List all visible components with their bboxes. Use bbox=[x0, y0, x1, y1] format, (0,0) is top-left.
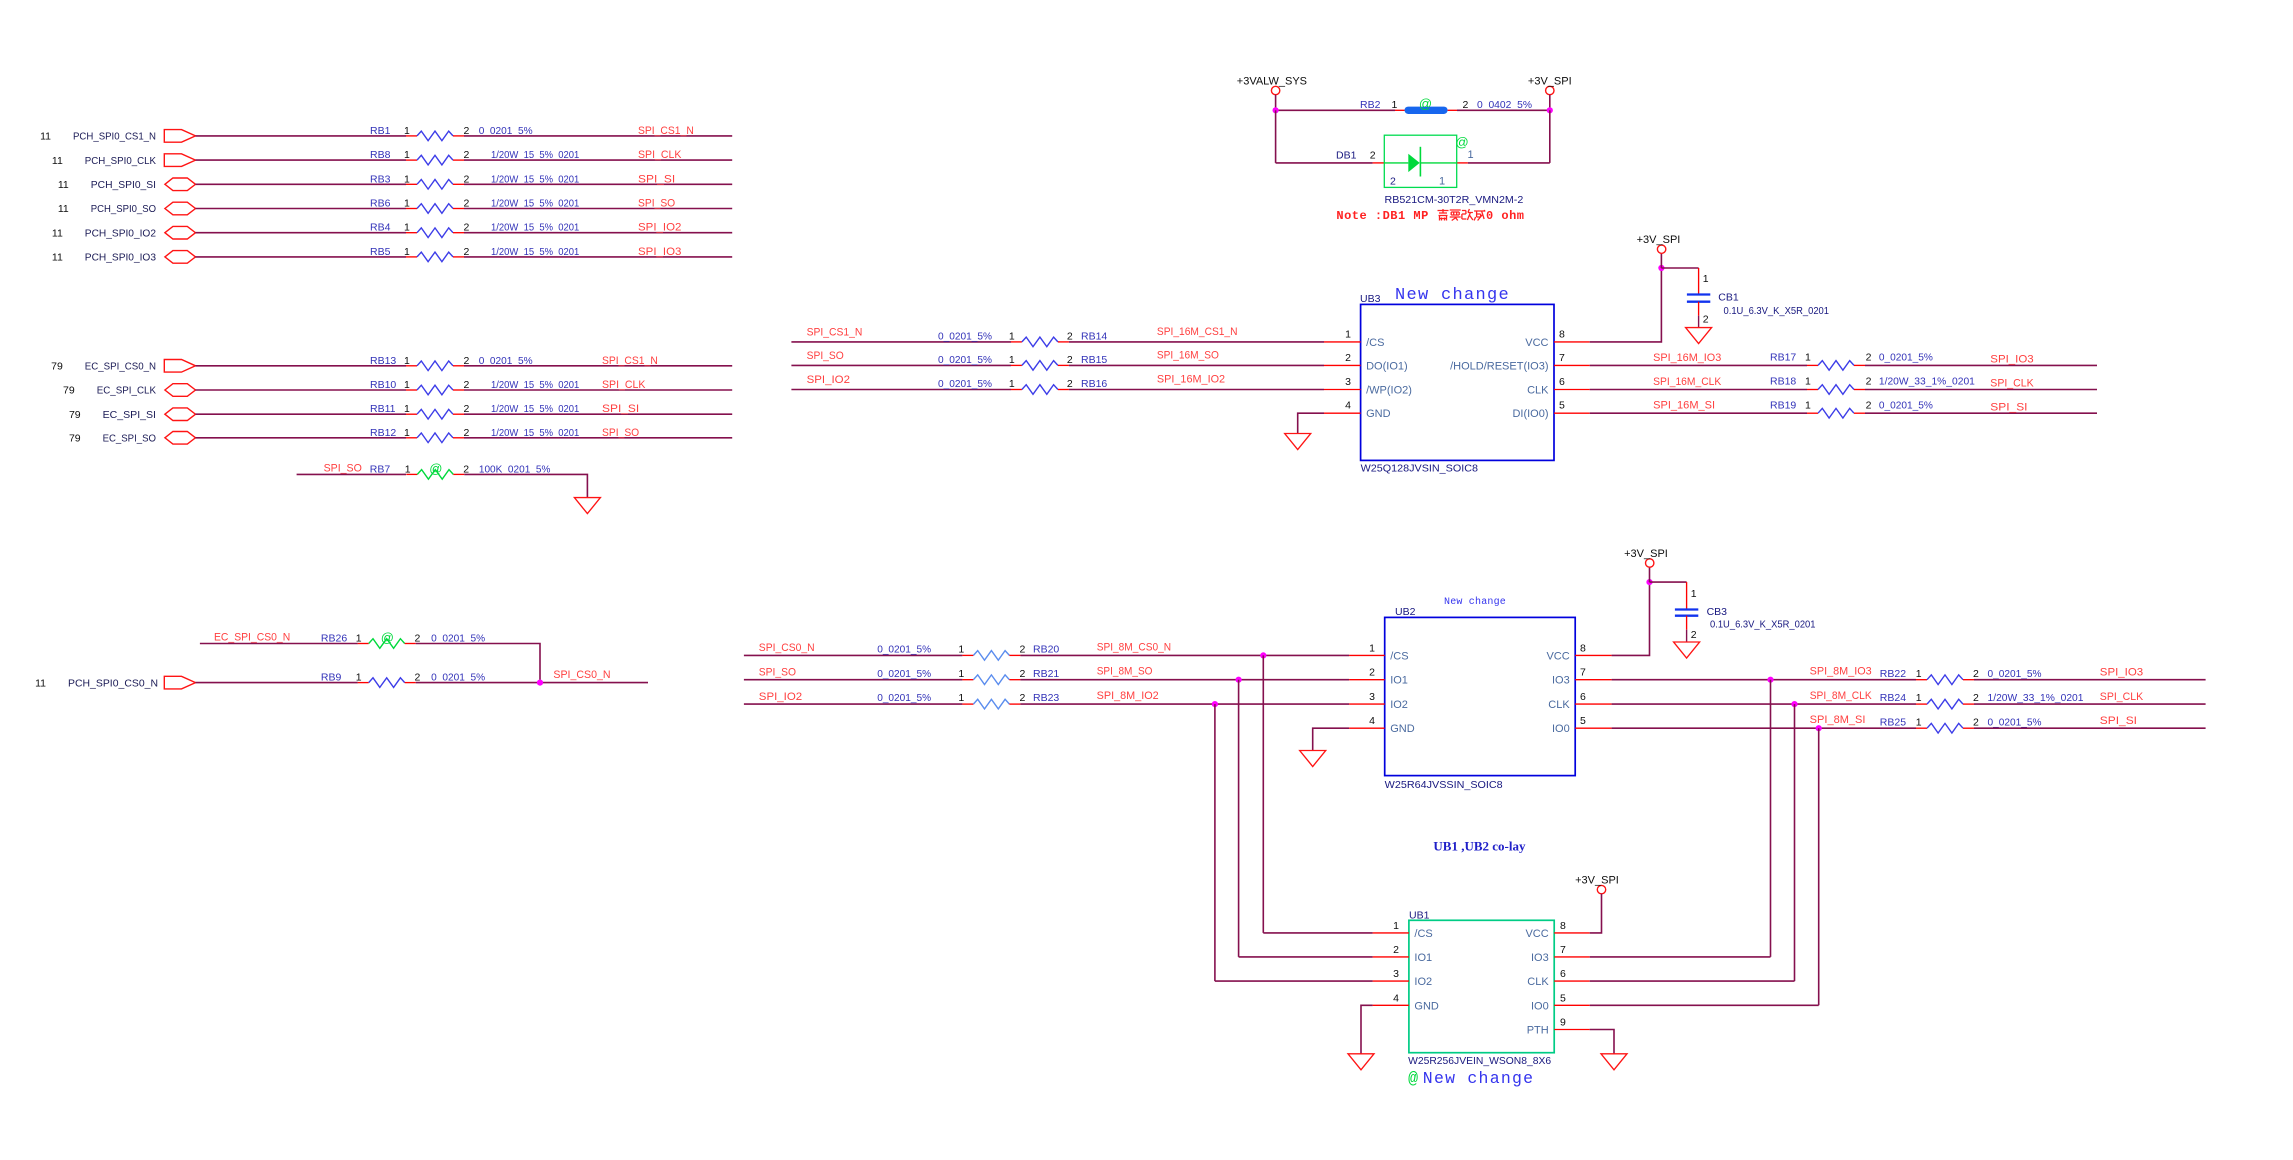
svg-text:DB1: DB1 bbox=[1336, 150, 1357, 162]
svg-text:1: 1 bbox=[1916, 692, 1922, 704]
pin 6 UB3 CLK bbox=[1554, 389, 1590, 391]
pin 4 UB2 GND bbox=[1349, 727, 1385, 729]
pin 4 UB1 GND bbox=[1373, 1004, 1409, 1006]
svg-text:5: 5 bbox=[1560, 992, 1566, 1004]
svg-text:@: @ bbox=[381, 630, 394, 645]
svg-text:1: 1 bbox=[1805, 352, 1811, 364]
wire +3V_SPI stem bbox=[1549, 95, 1551, 111]
svg-text:GND: GND bbox=[1414, 1000, 1439, 1012]
wire UB1 pin2 from SPI_8M_SO bbox=[1239, 956, 1373, 958]
wire SPI_8M_SO vertical to UB1 bbox=[1238, 680, 1240, 957]
svg-text:SPI_CS0_N: SPI_CS0_N bbox=[759, 642, 815, 654]
svg-text:RB17: RB17 bbox=[1770, 352, 1796, 364]
wire RB26 to node SPI_CS0_N bbox=[416, 644, 540, 683]
svg-text:7: 7 bbox=[1559, 352, 1565, 364]
wire RB18 to net SPI_CLK bbox=[1865, 389, 2097, 391]
junction SPI_8M_IO3 bbox=[1767, 677, 1773, 683]
power symbol +3V_SPI (UB1) bbox=[1575, 874, 1619, 893]
svg-text:4: 4 bbox=[1345, 400, 1351, 412]
svg-text:6: 6 bbox=[1559, 376, 1565, 388]
svg-text:1: 1 bbox=[958, 692, 964, 704]
pin 1 UB2 /CS bbox=[1349, 654, 1385, 656]
resistor RB13 bbox=[406, 361, 464, 371]
wire SPI_CS1_N to RB14 bbox=[791, 341, 1011, 343]
junction SPI_8M_CLK bbox=[1791, 701, 1797, 707]
svg-text:2: 2 bbox=[1691, 629, 1697, 641]
svg-text:1: 1 bbox=[404, 379, 410, 391]
svg-text:RB6: RB6 bbox=[370, 198, 391, 210]
wire RB19 to net SPI_SI bbox=[1865, 412, 2097, 414]
port symbol PCH_SPI0_SO bbox=[165, 202, 196, 215]
wire UB2 pin 5 to RB25 bbox=[1612, 727, 1916, 729]
svg-text:RB11: RB11 bbox=[370, 403, 396, 415]
pin 2 UB2 IO1 bbox=[1349, 679, 1385, 681]
svg-text:/CS: /CS bbox=[1390, 650, 1408, 662]
svg-text:RB12: RB12 bbox=[370, 427, 396, 439]
wire to DB1 pin 2 bbox=[1276, 162, 1373, 164]
svg-text:0.1U_6.3V_K_X5R_0201: 0.1U_6.3V_K_X5R_0201 bbox=[1724, 305, 1830, 317]
wire EC_SPI_CS0_N to RB26 bbox=[200, 643, 358, 645]
svg-text:0_0201_5%: 0_0201_5% bbox=[1988, 716, 2042, 728]
wire UB1 PTH to ground bbox=[1590, 1030, 1614, 1054]
resistor RB22 bbox=[1916, 675, 1974, 685]
svg-text:0_0201_5%: 0_0201_5% bbox=[938, 330, 992, 342]
capacitor CB1 bbox=[1687, 268, 1710, 328]
svg-text:/HOLD/RESET(IO3): /HOLD/RESET(IO3) bbox=[1450, 360, 1548, 372]
svg-text:IO2: IO2 bbox=[1414, 976, 1432, 988]
wire down to DB1 cathode side bbox=[1549, 110, 1551, 163]
svg-text:1/20W_33_1%_0201: 1/20W_33_1%_0201 bbox=[1988, 692, 2084, 704]
pin 1 UB1 /CS bbox=[1373, 932, 1409, 934]
svg-text:SPI_16M_IO2: SPI_16M_IO2 bbox=[1157, 374, 1225, 386]
junction SPI_8M_SO bbox=[1236, 677, 1242, 683]
svg-text:0_0201_5%: 0_0201_5% bbox=[1879, 399, 1933, 411]
svg-text:2: 2 bbox=[1973, 716, 1979, 728]
svg-text:RB1: RB1 bbox=[370, 125, 391, 137]
wire EC_SPI_SO to RB12 bbox=[196, 437, 407, 439]
note text DB1 bbox=[1336, 209, 1524, 223]
svg-text:2: 2 bbox=[1390, 175, 1396, 187]
svg-text:1: 1 bbox=[404, 427, 410, 439]
resistor RB9 bbox=[358, 678, 416, 688]
junction SPI_8M_SI bbox=[1816, 725, 1822, 731]
svg-text:0.1U_6.3V_K_X5R_0201: 0.1U_6.3V_K_X5R_0201 bbox=[1710, 618, 1816, 630]
port symbol PCH_SPI0_IO3 bbox=[165, 251, 196, 264]
svg-text:RB16: RB16 bbox=[1081, 378, 1107, 390]
svg-text:IO0: IO0 bbox=[1531, 1000, 1549, 1012]
svg-text:PCH_SPI0_CS1_N: PCH_SPI0_CS1_N bbox=[73, 131, 156, 143]
svg-text:VCC: VCC bbox=[1525, 337, 1548, 349]
svg-text:+3VALW_SYS: +3VALW_SYS bbox=[1237, 75, 1307, 87]
svg-text:SPI_IO3: SPI_IO3 bbox=[2100, 667, 2144, 679]
svg-text:1: 1 bbox=[1691, 588, 1697, 600]
svg-text:1: 1 bbox=[958, 644, 964, 656]
wire SPI_SO to RB15 bbox=[791, 364, 1011, 366]
svg-text:1: 1 bbox=[404, 222, 410, 234]
svg-text:W25Q128JVSIN_SOIC8: W25Q128JVSIN_SOIC8 bbox=[1361, 462, 1479, 474]
svg-text:1: 1 bbox=[404, 125, 410, 137]
svg-text:RB3: RB3 bbox=[370, 173, 391, 185]
svg-text:RB20: RB20 bbox=[1033, 644, 1059, 656]
svg-text:2: 2 bbox=[1020, 644, 1026, 656]
wire UB2 pin 6 to RB24 bbox=[1612, 703, 1916, 705]
svg-text:PCH_SPI0_CLK: PCH_SPI0_CLK bbox=[85, 155, 156, 167]
port symbol EC_SPI_SI bbox=[165, 408, 196, 421]
wire RB8 to net SPI_CLK bbox=[464, 159, 732, 161]
svg-text:IO3: IO3 bbox=[1552, 675, 1570, 687]
svg-text:2: 2 bbox=[1703, 313, 1709, 325]
svg-text:@: @ bbox=[1419, 96, 1432, 111]
wire UB1 pin1 from SPI_8M_CS0_N bbox=[1263, 932, 1372, 934]
wire UB3 pin 5 to RB19 bbox=[1590, 412, 1807, 414]
wire UB2 GND bbox=[1313, 728, 1349, 750]
wire PCH_SPI0_CS1_N to RB1 bbox=[196, 135, 407, 137]
port symbol PCH_SPI0_CS0_N bbox=[164, 676, 195, 689]
ground CB1 bbox=[1686, 328, 1712, 344]
svg-text:1: 1 bbox=[404, 173, 410, 185]
svg-text:SPI_IO3: SPI_IO3 bbox=[638, 246, 682, 258]
resistor RB5 bbox=[406, 252, 464, 262]
wire RB23 to UB2 pin 3 bbox=[1020, 703, 1349, 705]
svg-text:SPI_CLK: SPI_CLK bbox=[602, 379, 645, 391]
svg-text:1: 1 bbox=[1392, 99, 1398, 111]
svg-text:1: 1 bbox=[356, 672, 362, 684]
svg-text:SPI_16M_IO3: SPI_16M_IO3 bbox=[1653, 352, 1721, 364]
wire PCH_SPI0_CLK to RB8 bbox=[196, 159, 407, 161]
svg-text:2: 2 bbox=[1370, 150, 1376, 162]
wire UB2 VCC to +3V_SPI bbox=[1612, 582, 1650, 655]
svg-text:CB1: CB1 bbox=[1718, 292, 1739, 304]
svg-text:11: 11 bbox=[52, 252, 63, 264]
svg-text:RB15: RB15 bbox=[1081, 354, 1107, 366]
svg-text:0 ohm: 0 ohm bbox=[1486, 209, 1525, 223]
svg-text:2: 2 bbox=[1067, 354, 1073, 366]
pin 8 UB2 VCC bbox=[1575, 654, 1611, 656]
pin 3 UB3 /WP(IO2) bbox=[1324, 389, 1361, 391]
resistor RB7 bbox=[406, 461, 464, 479]
svg-text:1: 1 bbox=[356, 633, 362, 645]
svg-text:1: 1 bbox=[1439, 175, 1445, 187]
svg-text:SPI_CLK: SPI_CLK bbox=[2100, 691, 2143, 703]
svg-text:RB5: RB5 bbox=[370, 246, 391, 258]
svg-text:SPI_8M_IO3: SPI_8M_IO3 bbox=[1810, 666, 1872, 678]
pin 3 UB1 IO2 bbox=[1373, 980, 1409, 982]
wire PCH_SPI0_IO3 to RB5 bbox=[196, 256, 407, 258]
svg-text:SPI_8M_CLK: SPI_8M_CLK bbox=[1810, 690, 1872, 702]
wire RB17 to net SPI_IO3 bbox=[1865, 364, 2097, 366]
svg-text:2: 2 bbox=[1463, 99, 1469, 111]
port symbol PCH_SPI0_SI bbox=[165, 178, 196, 191]
svg-text:2: 2 bbox=[1866, 376, 1872, 388]
junction +3V_SPI UB2 bbox=[1646, 579, 1652, 585]
ground UB3 bbox=[1285, 434, 1311, 450]
svg-text:RB13: RB13 bbox=[370, 355, 396, 367]
port symbol EC_SPI_SO bbox=[165, 432, 196, 445]
svg-text:UB1: UB1 bbox=[1409, 910, 1430, 922]
wire EC_SPI_CS0_N to RB13 bbox=[196, 365, 407, 367]
pin 6 UB1 CLK bbox=[1554, 980, 1590, 982]
svg-text:79: 79 bbox=[69, 409, 81, 421]
wire UB2 pin 7 to RB22 bbox=[1612, 679, 1916, 681]
resistor RB10 bbox=[406, 385, 464, 395]
svg-text:+3V_SPI: +3V_SPI bbox=[1528, 75, 1572, 87]
svg-text:RB9: RB9 bbox=[321, 672, 342, 684]
svg-text:5: 5 bbox=[1559, 400, 1565, 412]
svg-text:SPI_IO2: SPI_IO2 bbox=[807, 374, 851, 386]
svg-text:0_0201_5%: 0_0201_5% bbox=[1988, 668, 2042, 680]
svg-text:SPI_SO: SPI_SO bbox=[602, 427, 639, 439]
svg-text:GND: GND bbox=[1366, 408, 1391, 420]
svg-text:SPI_16M_CS1_N: SPI_16M_CS1_N bbox=[1157, 326, 1238, 338]
svg-text:RB26: RB26 bbox=[321, 633, 347, 645]
svg-text:CLK: CLK bbox=[1548, 699, 1570, 711]
svg-text:1: 1 bbox=[1345, 328, 1351, 340]
svg-text:6: 6 bbox=[1560, 968, 1566, 980]
svg-text:EC_SPI_CS0_N: EC_SPI_CS0_N bbox=[85, 361, 156, 373]
resistor RB6 bbox=[406, 204, 464, 214]
wire PCH_SPI0_IO2 to RB4 bbox=[196, 232, 407, 234]
svg-text:SPI_SI: SPI_SI bbox=[2100, 715, 2137, 727]
resistor RB21 bbox=[962, 675, 1020, 685]
wire SPI_SO to RB21 bbox=[744, 679, 963, 681]
svg-text:6: 6 bbox=[1580, 691, 1586, 703]
svg-text:VCC: VCC bbox=[1525, 928, 1548, 940]
wire SPI_8M_IO3 vertical to UB1 bbox=[1770, 680, 1772, 957]
svg-text:SPI_16M_CLK: SPI_16M_CLK bbox=[1653, 376, 1721, 388]
resistor RB24 bbox=[1916, 699, 1974, 709]
svg-text:0_0201_5%: 0_0201_5% bbox=[938, 378, 992, 390]
svg-text:+3V_SPI: +3V_SPI bbox=[1624, 548, 1668, 560]
svg-text:SPI_8M_SO: SPI_8M_SO bbox=[1097, 666, 1153, 678]
svg-text:7: 7 bbox=[1560, 944, 1566, 956]
svg-text:4: 4 bbox=[1369, 715, 1375, 727]
svg-text:RB24: RB24 bbox=[1880, 692, 1906, 704]
wire RB20 to UB2 pin 1 bbox=[1020, 654, 1349, 656]
wire SPI_8M_CS0_N vertical to UB1 bbox=[1262, 655, 1264, 933]
resistor RB4 bbox=[406, 228, 464, 238]
svg-text:PTH: PTH bbox=[1527, 1025, 1549, 1037]
svg-text:9: 9 bbox=[1560, 1017, 1566, 1029]
svg-text:0_0201_5%: 0_0201_5% bbox=[938, 354, 992, 366]
wire RB12 to net SPI_SO bbox=[464, 437, 732, 439]
wire UB3 GND bbox=[1298, 413, 1324, 433]
wire +3V_SPI to UB1 VCC bbox=[1590, 894, 1602, 933]
ground for RB7 bbox=[574, 498, 600, 514]
svg-text:UB3: UB3 bbox=[1360, 293, 1381, 305]
resistor RB11 bbox=[406, 409, 464, 419]
svg-text:79: 79 bbox=[51, 361, 63, 373]
svg-text:W25R256JVEIN_WSON8_8X6: W25R256JVEIN_WSON8_8X6 bbox=[1408, 1055, 1551, 1067]
pin 7 UB2 IO3 bbox=[1575, 679, 1611, 681]
wire to capacitor CB3 bbox=[1650, 581, 1687, 583]
wire UB1 GND bbox=[1361, 1005, 1373, 1054]
svg-text:SPI_CLK: SPI_CLK bbox=[638, 149, 681, 161]
wire +3V_SPI stem UB3 bbox=[1660, 253, 1662, 268]
wire UB3 VCC to +3V_SPI bbox=[1590, 268, 1662, 342]
svg-text:IO1: IO1 bbox=[1390, 675, 1408, 687]
svg-text:2: 2 bbox=[1345, 352, 1351, 364]
svg-text:SPI_8M_IO2: SPI_8M_IO2 bbox=[1097, 690, 1159, 702]
svg-text:1: 1 bbox=[1468, 149, 1474, 161]
wire node SPI_CS0_N bbox=[416, 682, 648, 684]
svg-text:IO2: IO2 bbox=[1390, 699, 1408, 711]
svg-text:RB19: RB19 bbox=[1770, 399, 1796, 411]
svg-text:RB21: RB21 bbox=[1033, 668, 1059, 680]
op-amp U-chip UB1 (W25R256 SPI flash) bbox=[1409, 920, 1554, 1052]
wire RB5 to net SPI_IO3 bbox=[464, 256, 732, 258]
resistor RB16 bbox=[1011, 385, 1069, 395]
wire RB24 to net SPI_CLK bbox=[1974, 703, 2206, 705]
port symbol PCH_SPI0_IO2 bbox=[165, 226, 196, 239]
svg-text:0_0201_5%: 0_0201_5% bbox=[1879, 352, 1933, 364]
svg-text:SPI_SO: SPI_SO bbox=[759, 667, 796, 679]
wire PCH_SPI0_CS0_N to RB9 bbox=[196, 682, 358, 684]
pin 6 UB2 CLK bbox=[1575, 703, 1611, 705]
pin 5 UB3 DI(IO0) bbox=[1554, 412, 1590, 414]
svg-text:1: 1 bbox=[1916, 668, 1922, 680]
svg-text:EC_SPI_CLK: EC_SPI_CLK bbox=[97, 385, 156, 397]
wire UB1 pin5 to SPI_8M_SI bbox=[1590, 1004, 1819, 1006]
svg-text:SPI_SO: SPI_SO bbox=[807, 350, 844, 362]
svg-text:1: 1 bbox=[958, 668, 964, 680]
pin 8 UB3 VCC bbox=[1554, 341, 1590, 343]
svg-text:11: 11 bbox=[58, 203, 69, 215]
svg-text:+3V_SPI: +3V_SPI bbox=[1575, 874, 1619, 886]
svg-text:2: 2 bbox=[1973, 668, 1979, 680]
resistor RB20 bbox=[962, 651, 1020, 661]
ground CB3 bbox=[1674, 642, 1700, 658]
resistor RB1 bbox=[406, 131, 464, 141]
resistor RB19 bbox=[1807, 408, 1865, 418]
svg-text:@: @ bbox=[1408, 1069, 1418, 1088]
svg-text:IO3: IO3 bbox=[1531, 952, 1549, 964]
wire RB10 to net SPI_CLK bbox=[464, 389, 732, 391]
power symbol +3V_SPI (top right) bbox=[1528, 75, 1572, 94]
svg-text:PCH_SPI0_IO2: PCH_SPI0_IO2 bbox=[85, 227, 156, 239]
svg-text:1: 1 bbox=[1703, 273, 1709, 285]
wire +3V_SPI stem UB2 bbox=[1649, 567, 1651, 582]
svg-text:SPI_SO: SPI_SO bbox=[324, 462, 362, 474]
diode DB1 bbox=[1373, 135, 1469, 188]
junction +3V_SPI UB3 bbox=[1658, 265, 1664, 271]
svg-text:SPI_CS1_N: SPI_CS1_N bbox=[638, 125, 694, 137]
svg-text:UB2: UB2 bbox=[1395, 606, 1416, 618]
svg-text:3: 3 bbox=[1393, 968, 1399, 980]
ground UB1 PTH bbox=[1601, 1054, 1627, 1070]
svg-text:1: 1 bbox=[405, 463, 411, 475]
svg-text:EC_SPI_SO: EC_SPI_SO bbox=[103, 433, 156, 445]
wire DB1 pin 1 to +3V_SPI bbox=[1468, 162, 1550, 164]
wire PCH_SPI0_SO to RB6 bbox=[196, 208, 407, 210]
svg-text:1/20W_33_1%_0201: 1/20W_33_1%_0201 bbox=[1879, 376, 1975, 388]
svg-text:4: 4 bbox=[1393, 992, 1399, 1004]
svg-text:8: 8 bbox=[1559, 328, 1565, 340]
svg-text:SPI_SI: SPI_SI bbox=[638, 173, 675, 185]
svg-text:SPI_16M_SI: SPI_16M_SI bbox=[1653, 400, 1715, 412]
pin 7 UB1 IO3 bbox=[1554, 956, 1590, 958]
resistor RB8 bbox=[406, 155, 464, 165]
svg-text:SPI_IO2: SPI_IO2 bbox=[638, 222, 682, 234]
power symbol +3V_SPI (UB2) bbox=[1624, 548, 1668, 567]
wire RB21 to UB2 pin 2 bbox=[1020, 679, 1349, 681]
svg-text:1: 1 bbox=[404, 198, 410, 210]
wire SPI_8M_IO2 vertical to UB1 bbox=[1214, 704, 1216, 981]
wire UB1 pin3 from SPI_8M_IO2 bbox=[1215, 980, 1373, 982]
svg-text:PCH_SPI0_SO: PCH_SPI0_SO bbox=[91, 203, 156, 215]
svg-text:VCC: VCC bbox=[1546, 650, 1569, 662]
svg-text:11: 11 bbox=[40, 131, 51, 143]
ground UB1 bbox=[1348, 1054, 1374, 1070]
svg-text:DI(IO0): DI(IO0) bbox=[1512, 408, 1548, 420]
svg-text:1: 1 bbox=[404, 403, 410, 415]
resistor RB15 bbox=[1011, 361, 1069, 371]
resistor RB3 bbox=[406, 180, 464, 190]
svg-text:1: 1 bbox=[404, 246, 410, 258]
svg-text:/WP(IO2): /WP(IO2) bbox=[1366, 385, 1412, 397]
pin 4 UB3 GND bbox=[1324, 412, 1361, 414]
svg-text:8: 8 bbox=[1560, 920, 1566, 932]
svg-text:/CS: /CS bbox=[1414, 928, 1432, 940]
pin 8 UB1 VCC bbox=[1554, 932, 1590, 934]
svg-text:2: 2 bbox=[1866, 399, 1872, 411]
svg-text:1: 1 bbox=[1916, 716, 1922, 728]
wire SPI_CS0_N to RB20 bbox=[744, 654, 963, 656]
svg-text:RB521CM-30T2R_VMN2M-2: RB521CM-30T2R_VMN2M-2 bbox=[1385, 194, 1524, 206]
svg-text:SPI_CS1_N: SPI_CS1_N bbox=[807, 326, 863, 338]
svg-text:1: 1 bbox=[404, 355, 410, 367]
svg-text:CLK: CLK bbox=[1527, 976, 1549, 988]
wire RB25 to net SPI_SI bbox=[1974, 727, 2206, 729]
svg-text:SPI_IO3: SPI_IO3 bbox=[1990, 354, 2034, 366]
wire RB7 to ground bbox=[464, 474, 587, 497]
wire SPI_IO2 to RB16 bbox=[791, 389, 1011, 391]
svg-text:RB8: RB8 bbox=[370, 149, 391, 161]
junction node SPI_CS0_N bbox=[537, 680, 543, 686]
port symbol PCH_SPI0_CS1_N bbox=[164, 130, 195, 143]
svg-text:SPI_SI: SPI_SI bbox=[602, 403, 639, 415]
wire RB11 to net SPI_SI bbox=[464, 413, 732, 415]
svg-text:1: 1 bbox=[1009, 354, 1015, 366]
resistor RB18 bbox=[1807, 385, 1865, 395]
svg-text:UB1 ,UB2 co-lay: UB1 ,UB2 co-lay bbox=[1433, 839, 1526, 854]
svg-text:2: 2 bbox=[1020, 692, 1026, 704]
wire EC_SPI_SI to RB11 bbox=[196, 413, 407, 415]
wire RB2 to +3V_SPI bbox=[1457, 109, 1550, 111]
wire RB6 to net SPI_SO bbox=[464, 208, 732, 210]
svg-text:RB4: RB4 bbox=[370, 222, 391, 234]
svg-text:DO(IO1): DO(IO1) bbox=[1366, 360, 1408, 372]
svg-text:3: 3 bbox=[1369, 691, 1375, 703]
svg-text:New change: New change bbox=[1444, 596, 1506, 608]
port symbol EC_SPI_CS0_N bbox=[164, 360, 195, 373]
svg-text:1: 1 bbox=[1805, 399, 1811, 411]
svg-text:1: 1 bbox=[1009, 378, 1015, 390]
svg-text:RB7: RB7 bbox=[370, 463, 391, 475]
svg-text:EC_SPI_SI: EC_SPI_SI bbox=[103, 409, 156, 421]
svg-text:SPI_CLK: SPI_CLK bbox=[1990, 378, 2033, 390]
svg-text:11: 11 bbox=[52, 227, 63, 239]
wire RB13 to net SPI_CS1_N bbox=[464, 365, 732, 367]
svg-text:PCH_SPI0_SI: PCH_SPI0_SI bbox=[91, 179, 156, 191]
svg-text:@: @ bbox=[429, 461, 442, 476]
svg-text:2: 2 bbox=[1067, 378, 1073, 390]
ground UB2 bbox=[1300, 751, 1326, 767]
svg-text:2: 2 bbox=[1020, 668, 1026, 680]
svg-text:SPI_8M_SI: SPI_8M_SI bbox=[1810, 714, 1866, 726]
svg-text:1: 1 bbox=[1393, 920, 1399, 932]
wire RB1 to net SPI_CS1_N bbox=[464, 135, 732, 137]
svg-text:PCH_SPI0_CS0_N: PCH_SPI0_CS0_N bbox=[68, 677, 158, 689]
